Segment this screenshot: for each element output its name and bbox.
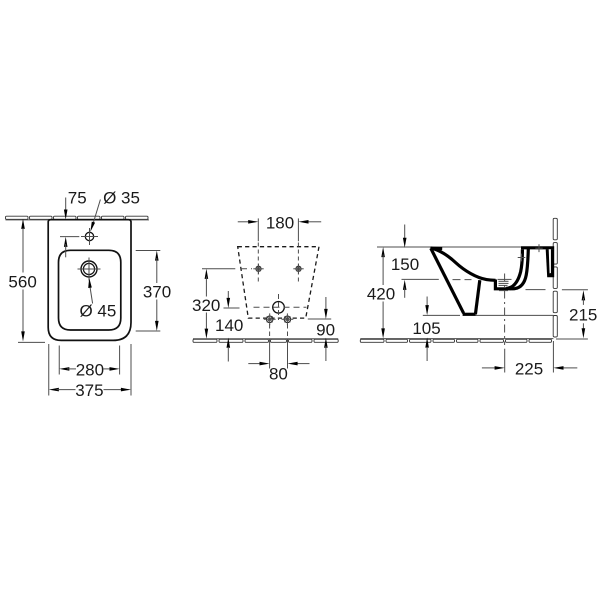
svg-text:105: 105 <box>412 319 440 338</box>
svg-text:370: 370 <box>143 282 171 301</box>
svg-text:150: 150 <box>391 255 419 274</box>
svg-text:180: 180 <box>266 213 294 232</box>
svg-text:420: 420 <box>367 285 395 304</box>
svg-text:Ø 45: Ø 45 <box>79 302 116 321</box>
svg-text:140: 140 <box>215 316 243 335</box>
svg-text:320: 320 <box>192 296 220 315</box>
svg-text:90: 90 <box>316 320 335 339</box>
svg-text:225: 225 <box>515 359 543 378</box>
svg-text:560: 560 <box>8 272 36 291</box>
svg-text:80: 80 <box>269 364 288 383</box>
svg-text:215: 215 <box>569 306 597 325</box>
svg-text:280: 280 <box>76 361 104 380</box>
svg-text:Ø 35: Ø 35 <box>103 189 140 208</box>
svg-text:375: 375 <box>75 381 103 400</box>
svg-text:75: 75 <box>68 189 87 208</box>
